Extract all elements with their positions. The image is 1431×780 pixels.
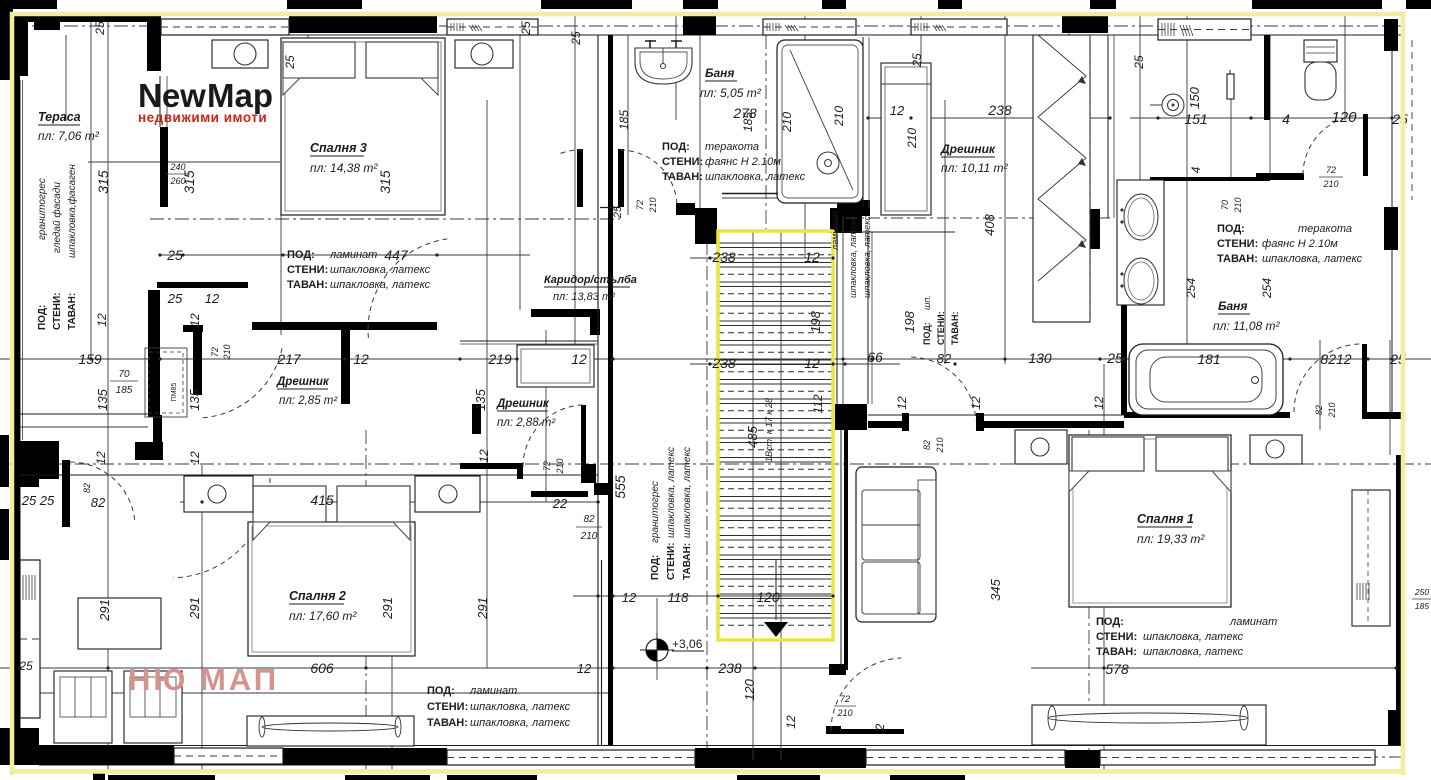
svg-text:12: 12 <box>353 351 369 367</box>
svg-text:150: 150 <box>1187 86 1202 108</box>
svg-text:120: 120 <box>1331 109 1357 126</box>
bath11 door arc <box>1294 344 1360 412</box>
black bars left edge <box>0 435 9 487</box>
svg-text:шпакловка, латекс: шпакловка, латекс <box>682 447 693 538</box>
wc door arc <box>1303 116 1355 175</box>
dim line y693 <box>40 692 612 694</box>
corridor wall elbow black <box>829 664 846 675</box>
svg-text:238: 238 <box>987 102 1012 118</box>
svg-text:шпакловка, латекс: шпакловка, латекс <box>705 171 806 183</box>
svg-text:пл: 7,06 m²: пл: 7,06 m² <box>38 129 100 143</box>
shower mixer bar <box>1227 74 1234 99</box>
svg-text:578: 578 <box>1105 661 1129 677</box>
svg-text:25 25: 25 25 <box>21 493 55 508</box>
svg-text:210: 210 <box>935 437 945 453</box>
bed 3 outline <box>281 38 445 215</box>
svg-text:ПОД:: ПОД: <box>287 249 315 261</box>
bed3 nightstand left <box>212 40 268 68</box>
svg-text:250: 250 <box>1414 587 1429 597</box>
dreshnik285 right wall black <box>341 330 350 404</box>
bedroom3 south wall black <box>252 322 437 330</box>
stair bottom-right pier black <box>835 404 867 430</box>
svg-text:25: 25 <box>1106 350 1123 366</box>
svg-text:1Вст. к 17 к 28: 1Вст. к 17 к 28 <box>764 398 774 462</box>
svg-text:шпакловка, латекс: шпакловка, латекс <box>1143 646 1244 658</box>
dreshnik285 door leaf <box>183 325 203 332</box>
svg-text:ламинат: ламинат <box>329 249 377 261</box>
svg-text:СТЕНИ:: СТЕНИ: <box>427 701 468 713</box>
svg-text:Тераса: Тераса <box>38 110 81 124</box>
svg-text:СТЕНИ:: СТЕНИ: <box>936 311 946 345</box>
svg-text:25: 25 <box>569 31 583 46</box>
svg-text:12: 12 <box>571 351 587 367</box>
svg-text:120: 120 <box>756 589 780 605</box>
wc west wall black <box>1264 35 1270 120</box>
svg-text:ТАВАН:: ТАВАН: <box>67 293 78 330</box>
bedroom3 corridor door leaf <box>577 149 583 207</box>
svg-text:238: 238 <box>711 249 736 265</box>
svg-text:185: 185 <box>116 385 133 396</box>
svg-text:70: 70 <box>118 369 130 380</box>
svg-text:25: 25 <box>1132 55 1146 70</box>
svg-text:теракота: теракота <box>1298 223 1352 235</box>
dim line y118 dreshnik10 <box>868 117 1110 119</box>
svg-text:ПМ85: ПМ85 <box>171 383 178 402</box>
svg-text:415: 415 <box>310 492 334 508</box>
svg-text:+3,06: +3,06 <box>672 637 703 651</box>
svg-text:Баня: Баня <box>705 66 734 80</box>
svg-text:шпакловка, латекс: шпакловка, латекс <box>848 216 858 298</box>
svg-text:315: 315 <box>95 170 111 194</box>
bed 2 outline <box>248 522 415 656</box>
bath11 door leaf black <box>1362 344 1367 412</box>
svg-text:12: 12 <box>95 313 109 327</box>
axis dash-dot y757 bottom <box>14 756 1404 758</box>
bedroom2 west door leaf <box>62 460 70 527</box>
west wall black strip <box>14 76 20 745</box>
svg-text:ПОД:: ПОД: <box>1096 616 1124 628</box>
svg-text:ТАВАН:: ТАВАН: <box>1217 253 1258 265</box>
wc door stub black <box>1256 173 1304 180</box>
table bedroom2 <box>78 598 161 649</box>
svg-text:шпакловка, латекс: шпакловка, латекс <box>666 447 677 538</box>
svg-text:пл: 10,11 m²: пл: 10,11 m² <box>941 161 1009 175</box>
north wall thin lines <box>14 15 1404 17</box>
svg-text:пл: 11,08 m²: пл: 11,08 m² <box>1213 319 1281 333</box>
entry door bottom wall stub <box>826 726 841 734</box>
svg-text:254: 254 <box>1184 278 1198 299</box>
svg-text:606: 606 <box>310 660 334 676</box>
svg-text:66: 66 <box>867 349 883 365</box>
svg-text:135: 135 <box>187 388 202 410</box>
svg-text:25: 25 <box>167 291 183 306</box>
svg-text:447: 447 <box>384 247 409 263</box>
svg-text:12: 12 <box>622 590 637 605</box>
svg-text:Дрешник: Дрешник <box>276 376 330 388</box>
svg-text:151: 151 <box>1184 111 1207 127</box>
bedroom2 north wall line <box>20 474 598 476</box>
svg-text:210: 210 <box>905 128 919 149</box>
shower door lines <box>722 193 778 195</box>
bath5 door arc <box>620 150 677 207</box>
svg-text:Каридор/стълба: Каридор/стълба <box>544 274 637 286</box>
svg-text:12: 12 <box>804 249 820 265</box>
dreshnik10 - bath wall black <box>1076 209 1100 249</box>
svg-text:теракота: теракота <box>705 141 759 153</box>
svg-text:12: 12 <box>804 355 820 371</box>
svg-text:ПОД:: ПОД: <box>922 322 932 345</box>
svg-text:шпакловка, латекс: шпакловка, латекс <box>470 717 571 729</box>
dreshnik288 closet <box>517 345 594 387</box>
tv stand bedroom2 <box>247 716 414 746</box>
staircase yellow highlight box <box>718 231 833 640</box>
svg-text:гранитогрес: гранитогрес <box>650 481 661 543</box>
stair top-right pier black <box>830 208 862 233</box>
bath11 sink ovals <box>1124 194 1158 240</box>
svg-text:135: 135 <box>95 388 110 410</box>
east wall thin lines <box>1391 51 1393 207</box>
bed 1 pillow folds <box>1069 471 1089 492</box>
entry door arc <box>831 658 902 731</box>
armchair 2 <box>124 671 182 743</box>
svg-text:210: 210 <box>648 197 658 213</box>
bedroom2 north wall stubs <box>460 463 522 469</box>
corridor-bedroom1 wall lower <box>840 430 842 665</box>
bedroom3 door leaf black <box>472 404 481 434</box>
west wall thin double lines <box>19 80 21 745</box>
svg-text:шпакловка, латекс: шпакловка, латекс <box>1262 253 1363 265</box>
svg-text:345: 345 <box>988 578 1003 600</box>
svg-text:238: 238 <box>717 660 742 676</box>
svg-text:12: 12 <box>188 313 202 327</box>
bed1 nightstand left <box>1015 430 1067 464</box>
svg-text:пл: 5,05 m²: пл: 5,05 m² <box>700 86 762 100</box>
svg-text:22: 22 <box>552 496 568 511</box>
terrace wall lower black <box>148 290 160 417</box>
bath11 west wall black <box>1121 300 1127 415</box>
svg-text:210: 210 <box>1322 179 1338 189</box>
svg-text:181: 181 <box>1197 351 1220 367</box>
svg-text:82: 82 <box>922 440 932 450</box>
north windows <box>161 19 289 35</box>
corridor west wall lower <box>597 230 599 745</box>
shower cabin <box>777 40 863 203</box>
svg-text:пл: 19,33 m²: пл: 19,33 m² <box>1137 532 1205 546</box>
south windows <box>174 748 283 764</box>
svg-text:шпакловка, латекс: шпакловка, латекс <box>862 216 872 298</box>
svg-text:210: 210 <box>222 344 232 360</box>
svg-text:12: 12 <box>1092 396 1106 410</box>
svg-text:120: 120 <box>742 678 757 700</box>
svg-text:ПОД:: ПОД: <box>662 141 690 153</box>
svg-text:25: 25 <box>18 659 33 673</box>
svg-text:4: 4 <box>1189 166 1203 173</box>
svg-text:12: 12 <box>784 715 798 729</box>
north wall piers black <box>14 15 161 22</box>
dim line y596 <box>573 595 833 597</box>
svg-text:238: 238 <box>711 355 736 371</box>
dreshnik285 door arc <box>202 348 282 418</box>
svg-text:ПОД:: ПОД: <box>37 305 48 330</box>
axis dash-dot line top <box>14 25 1404 27</box>
svg-text:25: 25 <box>612 205 624 219</box>
svg-text:недвижими имоти: недвижими имоти <box>138 110 267 125</box>
bedroom1 door arc <box>911 357 976 421</box>
bedroom2 big door arc <box>174 478 271 578</box>
dreshnik288 door leaf black <box>581 405 586 467</box>
svg-text:70: 70 <box>1220 200 1230 210</box>
svg-text:пл: 2,88 m²: пл: 2,88 m² <box>497 417 556 429</box>
svg-text:25: 25 <box>283 55 297 70</box>
svg-text:НЮ МАП: НЮ МАП <box>128 662 279 697</box>
svg-text:ТАВАН:: ТАВАН: <box>662 171 703 183</box>
dreshnik10 walls <box>820 231 955 233</box>
dim line y364 stairs2 <box>690 363 900 365</box>
svg-text:210: 210 <box>836 708 852 718</box>
svg-text:291: 291 <box>97 599 112 622</box>
main dim line y359 <box>0 358 1431 360</box>
south wall piers black <box>39 745 174 765</box>
svg-text:фаянс H 2.10м: фаянс H 2.10м <box>1262 238 1338 250</box>
dim line y262 stairs <box>690 257 833 259</box>
svg-text:пл: 14,38 m²: пл: 14,38 m² <box>310 161 378 175</box>
svg-text:ТАВАН:: ТАВАН: <box>682 543 693 580</box>
svg-text:72: 72 <box>635 200 645 210</box>
svg-text:315: 315 <box>377 170 393 194</box>
svg-text:130: 130 <box>1028 350 1052 366</box>
zigzag arrows <box>1078 76 1086 84</box>
svg-text:291: 291 <box>187 597 202 620</box>
svg-text:фаянс H 2.10м: фаянс H 2.10м <box>705 156 781 168</box>
svg-text:25: 25 <box>166 247 183 263</box>
svg-text:12: 12 <box>94 451 108 465</box>
svg-text:ТАВАН:: ТАВАН: <box>1096 646 1137 658</box>
svg-text:4: 4 <box>1282 111 1290 127</box>
svg-text:ТАВАН:: ТАВАН: <box>950 312 960 345</box>
svg-text:8212: 8212 <box>1320 351 1351 367</box>
svg-text:шп.: шп. <box>922 295 932 310</box>
bed1 nightstand right <box>1250 435 1302 464</box>
dreshnik10 cupboard <box>881 63 931 215</box>
svg-text:82: 82 <box>583 514 595 525</box>
bed 2 pillow folds <box>253 522 270 540</box>
west window hatch <box>20 560 40 718</box>
svg-text:шпакловка, латекс: шпакловка, латекс <box>1143 631 1244 643</box>
svg-text:Дрешник: Дрешник <box>940 142 996 156</box>
svg-text:ПОД:: ПОД: <box>1217 223 1245 235</box>
svg-text:шпакловка, латекс: шпакловка, латекс <box>330 264 431 276</box>
sofa bedroom1 <box>856 467 936 622</box>
bedroom2 west door arc <box>70 462 135 521</box>
svg-text:ламинат: ламинат <box>1229 616 1277 628</box>
svg-text:25: 25 <box>1391 111 1408 127</box>
svg-text:485: 485 <box>745 425 760 447</box>
svg-text:240: 240 <box>169 162 185 172</box>
stair right wall <box>836 216 838 430</box>
svg-text:210: 210 <box>580 531 598 542</box>
svg-text:шпакловка, латекс: шпакловка, латекс <box>470 701 571 713</box>
svg-text:118: 118 <box>668 590 689 605</box>
svg-text:New: New <box>138 77 206 114</box>
staircase treads <box>718 243 833 625</box>
dreshnik288 wall stub black <box>531 491 588 497</box>
svg-text:пл: 13,83 m²: пл: 13,83 m² <box>553 291 615 303</box>
dreshnik288 top wall <box>460 340 598 342</box>
stair top-left pier black <box>695 208 717 244</box>
svg-text:12: 12 <box>969 396 983 410</box>
svg-text:СТЕНИ:: СТЕНИ: <box>52 293 63 331</box>
armchair 1 <box>54 671 112 743</box>
axis dash-dot y464 <box>0 463 1431 465</box>
staircase down arrow <box>764 622 788 637</box>
svg-text:Спалня 1: Спалня 1 <box>1137 512 1194 526</box>
cabinet right wall <box>1352 490 1390 626</box>
svg-text:СТЕНИ:: СТЕНИ: <box>662 156 703 168</box>
svg-text:ПОД:: ПОД: <box>427 685 455 697</box>
svg-text:ПОД:: ПОД: <box>650 555 661 580</box>
svg-text:185: 185 <box>741 112 755 132</box>
svg-text:СТЕНИ:: СТЕНИ: <box>666 543 677 581</box>
wardrobe zigzag tall <box>1033 35 1090 322</box>
svg-text:Спалня 2: Спалня 2 <box>289 589 346 603</box>
svg-text:25: 25 <box>93 21 107 36</box>
bedroom3 door arc <box>368 239 447 338</box>
svg-text:Спалня 3: Спалня 3 <box>310 141 367 155</box>
svg-text:82: 82 <box>91 495 106 510</box>
svg-text:СТЕНИ:: СТЕНИ: <box>287 264 328 276</box>
bath11 north partition <box>1150 177 1270 181</box>
svg-text:210: 210 <box>832 106 846 127</box>
bed2 nightstand left <box>184 476 253 512</box>
svg-text:219: 219 <box>487 351 512 367</box>
bed 1 pillows <box>1072 437 1144 471</box>
svg-text:12: 12 <box>205 291 220 306</box>
south wall thin lines <box>14 745 1404 747</box>
svg-text:12: 12 <box>890 103 905 118</box>
svg-text:25: 25 <box>910 53 924 68</box>
tv cabinet bedroom1 <box>1032 705 1266 745</box>
svg-text:135: 135 <box>473 388 488 410</box>
svg-text:гранитогрес: гранитогрес <box>37 178 48 240</box>
svg-text:291: 291 <box>475 597 490 620</box>
bath5 door leaf <box>618 149 624 207</box>
svg-text:12: 12 <box>895 396 909 410</box>
south west corner block <box>14 728 39 765</box>
svg-text:408: 408 <box>982 213 997 235</box>
staircase stringers <box>752 231 754 760</box>
svg-text:82: 82 <box>937 351 952 366</box>
svg-text:пл: 17,60 m²: пл: 17,60 m² <box>289 609 357 623</box>
bed 1 outline <box>1069 435 1231 607</box>
terrace-bedroom3 wall black <box>160 127 168 207</box>
svg-text:Map: Map <box>207 77 273 114</box>
svg-text:шпакловка,фасаген: шпакловка,фасаген <box>66 164 78 258</box>
terrace south wall lines <box>20 413 148 415</box>
axis dash-dot y219 <box>150 218 620 220</box>
bed 3 pillows <box>283 42 355 78</box>
entry block west <box>14 441 59 479</box>
svg-text:12: 12 <box>477 449 491 463</box>
svg-text:185: 185 <box>1415 601 1429 611</box>
svg-text:Баня: Баня <box>1218 299 1247 313</box>
toilet <box>1304 40 1337 62</box>
svg-text:72: 72 <box>210 347 220 357</box>
svg-text:210: 210 <box>1327 402 1337 418</box>
dreshnik288 door arc <box>523 405 583 467</box>
bed 2 pillows <box>253 486 326 522</box>
bath5 south wall and door <box>600 207 620 209</box>
dim line y658 right <box>1031 667 1404 669</box>
svg-text:ТАВАН:: ТАВАН: <box>427 717 468 729</box>
bathtub <box>1129 344 1283 415</box>
svg-text:12: 12 <box>577 661 592 676</box>
svg-text:112: 112 <box>811 394 825 413</box>
svg-text:210: 210 <box>1233 197 1243 213</box>
dimension tick dots <box>89 357 92 360</box>
bath5 sink <box>635 48 692 84</box>
svg-text:25: 25 <box>519 21 533 36</box>
shower west wall <box>862 37 864 208</box>
bath11 vanity counter <box>1117 180 1164 305</box>
svg-text:шпакловка, латекс: шпакловка, латекс <box>330 279 431 291</box>
bed 3 pillow folds <box>283 78 300 95</box>
dim line y118 right <box>1130 117 1404 119</box>
svg-text:72: 72 <box>1326 165 1336 175</box>
svg-text:72: 72 <box>840 694 850 704</box>
svg-text:260: 260 <box>169 176 185 186</box>
svg-text:12: 12 <box>188 451 202 465</box>
svg-text:72: 72 <box>542 461 552 471</box>
black bars above yellow frame top <box>0 0 57 9</box>
black bars below yellow frame bottom <box>108 775 215 780</box>
svg-text:185: 185 <box>617 110 631 130</box>
svg-text:210: 210 <box>555 458 565 474</box>
terrace window PM85 dashed <box>145 348 187 417</box>
svg-text:198: 198 <box>902 310 917 332</box>
svg-text:82: 82 <box>1314 405 1324 415</box>
dreshnik10 west wall <box>867 232 869 404</box>
shower head symbol top right <box>1162 94 1184 116</box>
svg-text:217: 217 <box>276 351 302 367</box>
svg-text:2: 2 <box>873 723 887 731</box>
svg-text:СТЕНИ:: СТЕНИ: <box>1217 238 1258 250</box>
svg-text:ТАВАН:: ТАВАН: <box>287 279 328 291</box>
svg-text:198: 198 <box>808 310 823 332</box>
dim line y668 center <box>0 667 833 669</box>
level marker +3.06 <box>646 639 668 661</box>
bath5 west wall <box>597 35 599 230</box>
svg-text:ламинат: ламинат <box>469 685 517 697</box>
svg-text:555: 555 <box>612 475 628 499</box>
bed2 nightstand right <box>415 476 480 512</box>
svg-text:Дрешник: Дрешник <box>496 398 550 410</box>
dim line y162 terrace <box>88 161 280 163</box>
corridor top wall black <box>531 309 600 317</box>
east wall black lower <box>1396 455 1402 745</box>
svg-text:291: 291 <box>380 597 395 620</box>
svg-text:210: 210 <box>780 112 794 133</box>
svg-text:82: 82 <box>82 483 92 493</box>
bed3 nightstand right <box>455 40 513 68</box>
dim line y255 <box>160 254 530 256</box>
bath11 floor wall black <box>1124 412 1290 418</box>
svg-text:гледай фасади: гледай фасади <box>51 182 63 253</box>
small black below yellow <box>93 772 105 780</box>
bedroom1 north wall <box>868 414 1124 416</box>
svg-text:254: 254 <box>1260 278 1274 299</box>
terrace south wall stub <box>157 282 248 288</box>
svg-text:СТЕНИ:: СТЕНИ: <box>1096 631 1137 643</box>
